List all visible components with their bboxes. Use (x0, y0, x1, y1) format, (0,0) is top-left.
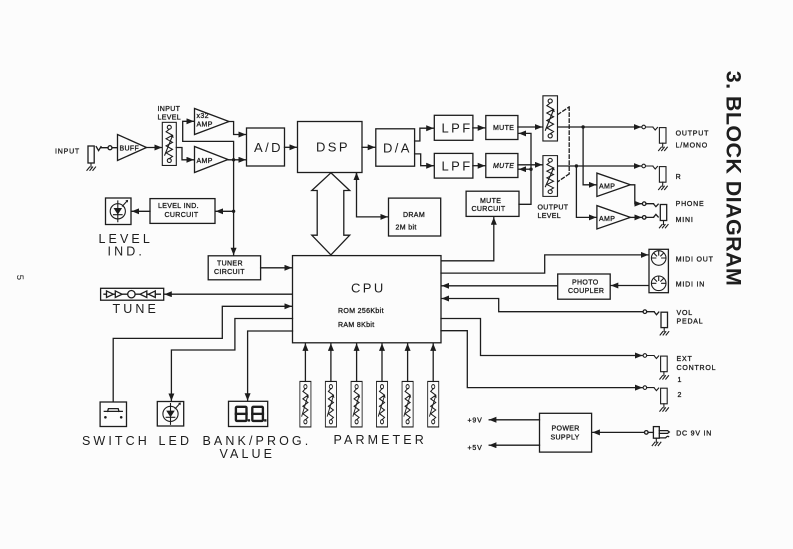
potentiometer VR2 OUTPUT LEVEL L (543, 96, 558, 141)
svg-text:MINI: MINI (676, 217, 694, 224)
wire CPU to LED D2 (171, 319, 292, 401)
block D/A (376, 129, 415, 166)
junction feed phones amp 1 (581, 125, 584, 128)
op-amp AMP phones R (597, 206, 631, 229)
wire jack to buffer (101, 147, 118, 149)
svg-text:TUNE: TUNE (113, 302, 159, 316)
wire monitor line down to level ind and tuner (233, 160, 235, 255)
op-amp AMP (195, 147, 229, 173)
wire VR3 to output jack R (558, 165, 641, 167)
jack J2 OUTPUT L/MONO (642, 125, 667, 150)
block TUNER CIRCUIT (208, 256, 260, 280)
wire DSP to D/A (362, 146, 375, 148)
wire photo coupler to CPU (442, 285, 558, 287)
LED D2 (157, 402, 183, 427)
svg-text:2M bit: 2M bit (396, 225, 417, 232)
potentiometer VR9 (428, 381, 439, 426)
wire LPF1 to MUTE1 (473, 127, 485, 129)
block PHOTO COUPLER (558, 274, 611, 299)
junction at level ind tap (232, 210, 235, 213)
svg-text:x32: x32 (197, 113, 209, 120)
wire power supply +5V (489, 444, 539, 446)
wire to phones AMP1 (583, 127, 596, 185)
svg-text:AMP: AMP (197, 158, 213, 165)
wire A/D to DSP (285, 146, 297, 148)
svg-text:5: 5 (14, 275, 25, 280)
svg-text:3. BLOCK DIAGRAM: 3. BLOCK DIAGRAM (722, 71, 746, 286)
wire CPU to MIDI OUT (441, 255, 648, 273)
block POWER SUPPLY (540, 413, 592, 452)
switch SW1 (100, 402, 126, 427)
svg-text:CPU: CPU (351, 281, 386, 296)
svg-text:CIRCUIT: CIRCUIT (214, 269, 245, 276)
block A/D (247, 128, 285, 166)
block DSP (298, 122, 363, 173)
svg-text:2: 2 (678, 392, 683, 399)
svg-text:CURCUIT: CURCUIT (165, 212, 199, 219)
7-segment display BANK/PROG VALUE (229, 401, 268, 426)
svg-text:OUTPUT: OUTPUT (538, 204, 569, 211)
MIDI connector block (649, 249, 668, 292)
svg-text:DSP: DSP (316, 140, 350, 155)
wire switch to CPU (113, 306, 291, 402)
svg-text:INPUT: INPUT (55, 148, 80, 155)
wire level ind circuit to LED D1 (132, 210, 150, 212)
block LEVEL IND. CURCUIT (150, 199, 215, 224)
jack J7 EXT CONTROL 2 (643, 386, 668, 411)
svg-text:MIDI OUT: MIDI OUT (676, 256, 714, 263)
svg-text:R: R (676, 174, 682, 181)
svg-text:LED: LED (159, 434, 193, 448)
wire CPU to bank/prog display (248, 331, 293, 400)
block LPF1 (434, 115, 473, 140)
op-amp BUFF (118, 135, 147, 161)
wire MUTE1 to output pot VR2 (518, 126, 542, 128)
block MUTE1 (486, 116, 518, 140)
jack J5 VOL PEDAL (643, 310, 669, 335)
jack J4 PHONE MINI (642, 202, 668, 228)
wire mute circuit control to MUTE1 and MUTE2 (519, 133, 531, 204)
svg-text:ROM 256Kbit: ROM 256Kbit (338, 308, 384, 315)
potentiometer VR5 (325, 381, 336, 426)
wire CPU to mute circuit (441, 218, 494, 261)
svg-text:LEVEL: LEVEL (538, 213, 562, 220)
wire AMP output to A/D (228, 159, 246, 161)
block MUTE2 (486, 154, 518, 178)
wire LPF2 to MUTE2 (473, 165, 485, 167)
potentiometer VR1 INPUT LEVEL (162, 122, 176, 165)
potentiometer VR8 (402, 381, 413, 426)
svg-text:MUTE: MUTE (493, 163, 514, 170)
wire vol pedal to CPU (442, 299, 643, 312)
wire power supply +9V (489, 419, 539, 421)
svg-text:VOL: VOL (677, 310, 693, 317)
block LPF2 (434, 153, 473, 178)
svg-text:COUPLER: COUPLER (568, 288, 604, 295)
svg-text:A/D: A/D (254, 140, 283, 155)
wire DSP to DRAM bidirectional (357, 174, 388, 217)
wire MIDI IN to photo coupler (611, 285, 649, 287)
dashed gang link between output pots (558, 107, 569, 182)
svg-text:MUTE: MUTE (493, 125, 514, 132)
svg-text:+5V: +5V (468, 445, 483, 452)
svg-text:DRAM: DRAM (403, 212, 425, 219)
wire VR2 to output jack L (558, 126, 641, 128)
block MUTE CURCUIT (466, 191, 519, 216)
svg-text:CURCUIT: CURCUIT (472, 206, 506, 213)
wire CPU to tune indicator (165, 293, 293, 295)
jack J8 DC 9V IN (645, 427, 670, 446)
svg-text:DC 9V IN: DC 9V IN (676, 430, 712, 437)
svg-text:RAM 8Kbit: RAM 8Kbit (338, 322, 375, 329)
tune indicator display (101, 288, 164, 300)
wire tap to level ind circuit (216, 210, 234, 212)
wire x32 AMP output to A/D (229, 122, 246, 135)
svg-text:IND.: IND. (108, 245, 145, 259)
svg-text:VALUE: VALUE (220, 447, 276, 461)
svg-text:INPUT: INPUT (158, 106, 181, 113)
wire MUTE2 to output pot VR3 (518, 164, 542, 166)
wire DC jack to power supply (593, 431, 645, 433)
svg-text:LPF: LPF (442, 121, 473, 136)
svg-text:TUNER: TUNER (217, 260, 243, 267)
svg-text:LEVEL: LEVEL (158, 115, 182, 122)
svg-text:LPF: LPF (442, 159, 473, 174)
wire D/A to LPF1 (415, 128, 434, 141)
svg-text:LEVEL IND.: LEVEL IND. (158, 203, 199, 210)
wires parameter pots to CPU (304, 344, 306, 382)
block CPU (293, 256, 442, 343)
wire BUFF to input level pot (147, 147, 162, 149)
potentiometer VR6 (351, 381, 362, 426)
wire CPU to ext control 2 (441, 331, 642, 388)
svg-text:MIDI IN: MIDI IN (676, 282, 705, 289)
bus arrow DSP-CPU double headed (312, 173, 350, 255)
potentiometer VR4 (300, 381, 311, 426)
wire to phones AMP2 (576, 166, 596, 217)
wire D/A to LPF2 (415, 154, 434, 166)
svg-text:CONTROL: CONTROL (677, 365, 717, 372)
wire CPU to ext control 1 (441, 319, 642, 356)
svg-text:EXT: EXT (677, 356, 693, 363)
svg-text:SWITCH: SWITCH (82, 434, 150, 448)
wire x32 AMP input network (183, 121, 234, 160)
svg-text:OUTPUT: OUTPUT (676, 130, 710, 137)
svg-text:PHOTO: PHOTO (572, 279, 599, 286)
wire tuner circuit to CPU (261, 267, 292, 269)
junction on AMP output (232, 158, 235, 161)
potentiometer VR7 (376, 381, 387, 426)
svg-text:AMP: AMP (197, 121, 213, 128)
LED D1 box LEVEL IND (106, 198, 132, 225)
jack J3 OUTPUT R (642, 164, 667, 189)
svg-text:SUPPLY: SUPPLY (551, 434, 580, 441)
potentiometer VR3 OUTPUT LEVEL R (543, 156, 558, 197)
block DRAM 2M bit (389, 198, 441, 236)
svg-text:AMP: AMP (599, 216, 615, 223)
svg-text:PEDAL: PEDAL (677, 319, 704, 326)
svg-text:+9V: +9V (468, 417, 483, 424)
op-amp x32 AMP (195, 109, 230, 135)
svg-text:AMP: AMP (599, 183, 615, 190)
svg-text:POWER: POWER (552, 426, 580, 433)
svg-text:BUFF: BUFF (120, 146, 140, 153)
svg-text:D/A: D/A (383, 140, 412, 155)
wire AMP2 to phone jack ring (630, 216, 641, 218)
svg-text:L/MONO: L/MONO (676, 142, 708, 149)
input jack J1 (87, 146, 112, 171)
op-amp AMP phones L (597, 173, 631, 196)
svg-text:MUTE: MUTE (480, 198, 501, 205)
svg-text:1: 1 (678, 377, 683, 384)
svg-text:PHONE: PHONE (676, 201, 705, 208)
junction feed phones amp 2 (575, 164, 578, 167)
jack J6 EXT CONTROL 1 (643, 354, 668, 379)
svg-text:PARMETER: PARMETER (334, 433, 427, 447)
wire pot wiper to AMP input (176, 148, 193, 160)
wire AMP1 to phone jack tip (630, 185, 641, 204)
